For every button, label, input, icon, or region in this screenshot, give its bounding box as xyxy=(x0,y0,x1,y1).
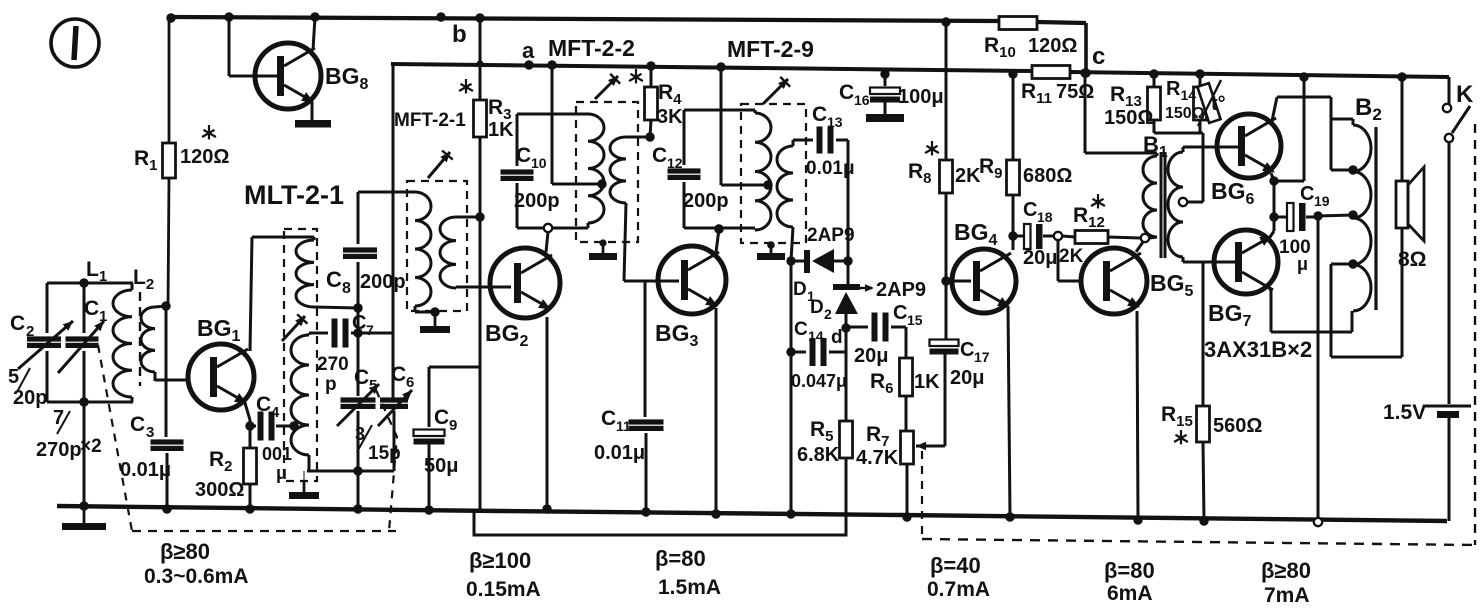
svg-text:120Ω: 120Ω xyxy=(180,146,229,168)
wire BG8 emitter and ground xyxy=(311,102,314,120)
svg-text:C: C xyxy=(352,312,366,334)
wire secondary bottom to BG3 base xyxy=(624,203,626,281)
diode D2 2AP9 xyxy=(833,284,860,290)
potentiometer R7 4.7K volume xyxy=(901,431,914,464)
B2 winding xyxy=(1353,125,1371,311)
svg-text:4.7K: 4.7K xyxy=(856,447,899,469)
svg-text:200p: 200p xyxy=(514,190,560,212)
wire secondary bottom to BG2 base xyxy=(456,286,511,289)
wire R6 to R7 xyxy=(905,396,908,431)
MFT-2-9 primary coil xyxy=(755,113,771,230)
svg-text:C: C xyxy=(812,103,827,126)
svg-text:17: 17 xyxy=(974,349,990,365)
svg-text:C: C xyxy=(84,297,99,320)
wire rail corner down to node c xyxy=(1084,23,1088,73)
capacitor C19 100u xyxy=(1274,216,1287,219)
svg-text:C: C xyxy=(354,366,369,389)
select mark R3 xyxy=(465,79,467,87)
wire emitters join xyxy=(1273,181,1276,231)
transistor BG1 xyxy=(188,344,254,410)
wire BG1 collector up xyxy=(250,237,252,351)
MFT-2-1 shield dashed box xyxy=(407,181,467,311)
B2 core xyxy=(1374,127,1377,310)
svg-text:200p: 200p xyxy=(683,190,729,212)
node a xyxy=(524,60,533,69)
variable capacitor C6 xyxy=(380,397,408,402)
svg-text:20μ: 20μ xyxy=(1023,247,1057,269)
svg-text:16: 16 xyxy=(854,92,870,108)
svg-text:β=40: β=40 xyxy=(930,553,981,578)
wire C10 bottom to BG2 collector node xyxy=(517,227,588,230)
svg-text:150Ω: 150Ω xyxy=(1104,107,1153,129)
capacitor C12 200p xyxy=(683,110,686,165)
svg-text:200p: 200p xyxy=(360,271,406,293)
svg-text:8Ω: 8Ω xyxy=(1398,248,1427,271)
svg-text:0.047μ: 0.047μ xyxy=(791,371,847,391)
ground main xyxy=(83,506,86,523)
B1 center tap xyxy=(1179,198,1187,206)
svg-text:150Ω: 150Ω xyxy=(1165,105,1205,122)
resistor R15 560ohm xyxy=(1202,262,1205,406)
svg-text:0.7mA: 0.7mA xyxy=(927,578,990,601)
oscillator tank coil xyxy=(291,335,309,455)
svg-text:0.15mA: 0.15mA xyxy=(466,578,541,601)
svg-text:C: C xyxy=(434,406,449,429)
B1 secondary coil xyxy=(1168,152,1183,257)
svg-text:MFT-2-2: MFT-2-2 xyxy=(548,35,635,61)
capacitor C11 0.01u xyxy=(644,281,647,417)
svg-text:2: 2 xyxy=(824,306,832,322)
svg-text:β=80: β=80 xyxy=(1104,558,1155,583)
wire C19 to B2 tap2 xyxy=(1318,215,1353,216)
svg-text:1K: 1K xyxy=(914,371,940,393)
svg-text:20μ: 20μ xyxy=(854,345,888,367)
MFT-2-2 secondary coil xyxy=(610,137,626,203)
wire node d down through R5 xyxy=(845,328,848,421)
capacitor C3 0.01u xyxy=(151,439,184,444)
ground MFT-2-2 xyxy=(602,242,604,243)
svg-text:680Ω: 680Ω xyxy=(1023,165,1072,187)
wire BG6 emitter to rail xyxy=(1271,173,1274,181)
battery 1.5V xyxy=(1425,405,1471,408)
select mark for R1 xyxy=(208,125,210,133)
arrow to 2AP9 label xyxy=(856,287,872,289)
capacitor C8 200p xyxy=(357,192,360,244)
svg-text:11: 11 xyxy=(616,418,631,434)
svg-text:9: 9 xyxy=(449,417,457,434)
wire primary bottom to ground xyxy=(414,306,417,312)
svg-text:0.3~0.6mA: 0.3~0.6mA xyxy=(144,565,249,588)
wire detector left leg xyxy=(790,261,793,514)
wire node c to B1 primary xyxy=(1080,68,1089,77)
svg-text:20p: 20p xyxy=(13,387,47,409)
svg-text:μ: μ xyxy=(276,463,287,483)
svg-text:560Ω: 560Ω xyxy=(1213,415,1262,437)
select mark R15 xyxy=(1180,430,1182,438)
resistor R10 xyxy=(999,17,1037,30)
speaker line from rail xyxy=(1397,72,1406,81)
node c xyxy=(1081,68,1090,77)
svg-text:C: C xyxy=(960,339,974,361)
svg-text:MFT-2-1: MFT-2-1 xyxy=(394,110,466,131)
wire secondary top to C13 xyxy=(792,140,795,146)
wire osc coil bottom to C8 node xyxy=(314,307,358,308)
MFT-2-1 secondary coil xyxy=(440,217,456,288)
wire BG1 base xyxy=(155,379,189,382)
svg-text:7: 7 xyxy=(366,322,374,338)
svg-text:C: C xyxy=(130,413,145,436)
svg-text:2K: 2K xyxy=(1059,246,1084,267)
oscillator feedback coil xyxy=(296,240,314,307)
capacitor C14 0.047u xyxy=(791,351,806,354)
svg-text:×2: ×2 xyxy=(80,436,102,457)
select mark R8 xyxy=(931,141,933,149)
tuning arrow MFT-2-2 xyxy=(595,76,618,99)
wire rail c to switch K xyxy=(1070,72,1449,77)
BG2 collector junction xyxy=(544,224,552,232)
select mark R12 xyxy=(1097,194,1099,202)
MFT-2-1 primary coil xyxy=(415,192,431,306)
MFT-2-2 primary coil xyxy=(588,114,604,223)
svg-text:2: 2 xyxy=(26,323,34,340)
wire BG4 base xyxy=(946,280,971,283)
wire b rail drop xyxy=(392,64,395,398)
svg-text:p: p xyxy=(325,374,337,395)
wire collector to osc coil top xyxy=(252,236,314,239)
wire tank bottom xyxy=(47,401,133,404)
transistor BG7 xyxy=(1214,230,1278,294)
svg-text:50μ: 50μ xyxy=(424,455,458,477)
svg-text:C: C xyxy=(326,267,342,292)
svg-text:75Ω: 75Ω xyxy=(1056,81,1094,103)
svg-text:300Ω: 300Ω xyxy=(195,479,244,501)
svg-text:1.5mA: 1.5mA xyxy=(658,576,721,599)
wire switch to battery xyxy=(1448,142,1451,404)
core L1 L2 xyxy=(139,292,141,386)
tuning arrow MLT-2-1 xyxy=(282,316,305,341)
capacitor C15 20u xyxy=(846,326,868,329)
wire BG5 emitter down xyxy=(1137,311,1138,520)
svg-text:D: D xyxy=(810,297,824,318)
svg-text:8: 8 xyxy=(342,280,351,297)
svg-text:d: d xyxy=(831,327,843,348)
svg-text:3AX31B×2: 3AX31B×2 xyxy=(1204,337,1312,362)
wire b rail to MFT-2-9 primary tap xyxy=(716,62,725,71)
svg-text:270: 270 xyxy=(317,354,349,375)
svg-text:1.5V: 1.5V xyxy=(1383,401,1426,424)
figure number circle 1 xyxy=(51,19,99,67)
transistor BG6 xyxy=(1217,114,1281,178)
wire B1 secondary bottom to BG7 base xyxy=(1182,257,1185,262)
switch K xyxy=(1448,77,1451,104)
svg-text:3: 3 xyxy=(146,424,154,441)
select mark R4 xyxy=(635,69,637,77)
resistors R13 R14 thermistor bias xyxy=(1202,133,1205,202)
transistor BG4 xyxy=(952,249,1016,313)
svg-text:c: c xyxy=(1092,43,1105,70)
wire C12 top to primary xyxy=(684,109,755,112)
resistor R5 6.8K xyxy=(840,421,853,458)
ground MFT-2-9 xyxy=(770,244,773,253)
wire BG7 emitter xyxy=(1268,231,1274,240)
wire BG3 emitter down xyxy=(715,308,718,514)
svg-text:C: C xyxy=(391,363,406,386)
capacitor C4 .001u xyxy=(250,425,256,428)
svg-text:β=80: β=80 xyxy=(655,546,706,571)
svg-text:β≥80: β≥80 xyxy=(1261,558,1311,583)
terminal circle R12 B1 xyxy=(1141,234,1149,242)
speaker 8ohm xyxy=(1396,181,1408,228)
svg-text:MLT-2-1: MLT-2-1 xyxy=(244,180,344,210)
terminal circle C18 R12 xyxy=(1054,232,1062,240)
svg-text:001: 001 xyxy=(262,444,292,464)
svg-text:12: 12 xyxy=(667,155,683,171)
resistor R6 1K xyxy=(905,327,908,358)
resistor R11 xyxy=(1032,66,1070,79)
resistor R13 150ohm xyxy=(1148,87,1161,120)
svg-text:20μ: 20μ xyxy=(950,367,984,389)
transistor BG3 xyxy=(658,246,726,314)
svg-text:C: C xyxy=(839,81,854,104)
capacitor C16 100u xyxy=(880,69,889,78)
svg-text:120Ω: 120Ω xyxy=(1028,35,1077,57)
svg-text:0.01μ: 0.01μ xyxy=(120,459,171,481)
svg-text:6: 6 xyxy=(406,374,414,391)
wire B2 tap3 to speaker return xyxy=(1331,263,1353,266)
wire top supply rail xyxy=(171,17,999,21)
B1 core xyxy=(1160,152,1163,258)
svg-text:C: C xyxy=(893,302,907,324)
wire secondary top to R3 xyxy=(456,216,480,219)
wire to BG5 base xyxy=(1057,240,1060,281)
capacitor C13 0.01u xyxy=(817,127,823,154)
MFT-2-2 shield dashed box xyxy=(576,102,638,242)
ground MLT box xyxy=(303,481,306,492)
antenna coil L1 xyxy=(113,290,132,397)
resistor R9 680ohm xyxy=(1008,69,1017,78)
svg-text:7mA: 7mA xyxy=(1264,584,1310,607)
wire C13 down to D1 xyxy=(847,140,850,287)
tuning arrow MFT-2-1 xyxy=(428,152,450,178)
wire BG1 emitter node xyxy=(245,403,250,420)
capacitor C9 50u electrolytic xyxy=(429,366,480,369)
svg-text:100μ: 100μ xyxy=(898,86,944,108)
wire B2 tap1 xyxy=(1331,169,1353,172)
svg-text:β≥100: β≥100 xyxy=(469,548,531,573)
capacitor C17 20u xyxy=(930,340,959,347)
trimmer capacitor C2 xyxy=(27,336,61,341)
svg-text:C: C xyxy=(794,319,808,340)
beta box IF solid xyxy=(474,511,846,535)
transistor BG8 xyxy=(255,43,321,109)
svg-text:3K: 3K xyxy=(657,106,683,128)
wire BG3 collector up xyxy=(716,229,719,252)
svg-text:C: C xyxy=(1023,199,1037,221)
svg-text:C: C xyxy=(652,144,667,167)
svg-text:2AP9: 2AP9 xyxy=(876,279,926,301)
diode D1 2AP9 xyxy=(791,260,806,263)
oscillator shield dashed box xyxy=(284,229,317,481)
wire B1 secondary top to BG6 base xyxy=(1182,147,1185,152)
node b xyxy=(436,12,445,21)
wire C10 top to primary xyxy=(517,113,588,116)
svg-text:270p: 270p xyxy=(36,439,82,461)
svg-text:15: 15 xyxy=(907,312,923,328)
resistor R3 1K xyxy=(475,13,484,22)
MFT-2-9 secondary coil xyxy=(777,146,793,227)
wire secondary bottom to detector xyxy=(791,227,793,261)
resistor R14 150ohm xyxy=(1195,69,1204,78)
wire second rail b xyxy=(391,64,1032,71)
svg-text:C: C xyxy=(10,312,25,335)
resistor R1 xyxy=(168,17,171,143)
wire bottom ground rail xyxy=(57,506,1447,521)
antenna coupling coil L2 xyxy=(141,307,155,372)
svg-text:2K: 2K xyxy=(955,165,981,187)
thermistor t xyxy=(1197,83,1220,123)
capacitor C10 200p xyxy=(516,114,519,166)
resistor R4 3K xyxy=(646,61,655,70)
svg-text:C: C xyxy=(256,393,271,416)
wire BG4 emitter down xyxy=(1008,306,1010,517)
wire b rail to primary tap xyxy=(547,60,556,69)
svg-text:19: 19 xyxy=(1314,193,1330,209)
wire BG5 collector to B1 xyxy=(1136,242,1143,252)
transistor BG2 xyxy=(490,248,560,318)
svg-text:1K: 1K xyxy=(488,119,514,141)
wire C5 C6 top xyxy=(358,332,393,335)
svg-text:10: 10 xyxy=(531,155,547,171)
wire C12 bottom to BG3 collector node xyxy=(684,227,755,230)
wire BG6 collector to B2 top xyxy=(1272,97,1277,121)
B1 primary coil xyxy=(1143,156,1157,237)
svg-text:C: C xyxy=(601,407,616,430)
svg-text:5: 5 xyxy=(8,366,19,388)
svg-text:t°: t° xyxy=(1211,93,1226,115)
resistor R12 2K xyxy=(1062,236,1075,237)
wire down to ground xyxy=(83,402,86,506)
svg-text:0.01μ: 0.01μ xyxy=(594,442,645,464)
svg-text:b: b xyxy=(452,21,467,48)
svg-text:18: 18 xyxy=(1037,209,1053,225)
beta box converter dashed xyxy=(98,345,132,531)
beta box audio dashed xyxy=(921,451,923,539)
capacitor C7 270p xyxy=(309,332,328,335)
wire BG2 emitter down xyxy=(546,317,549,509)
svg-text:C: C xyxy=(1300,183,1314,205)
wire BG8 collector xyxy=(313,17,315,50)
svg-text:C: C xyxy=(516,144,531,167)
wire BG8 base xyxy=(229,75,284,78)
svg-text:6.8K: 6.8K xyxy=(797,444,840,466)
svg-text:13: 13 xyxy=(827,114,843,130)
svg-text:MFT-2-9: MFT-2-9 xyxy=(727,36,814,62)
wire C19 node down to rail xyxy=(1317,216,1320,522)
MFT-2-9 shield dashed box xyxy=(741,104,806,243)
svg-text:1: 1 xyxy=(99,308,107,325)
capacitor C18 20u xyxy=(1013,235,1024,238)
svg-text:β≥80: β≥80 xyxy=(160,539,210,564)
terminal circle on rail xyxy=(1314,518,1322,526)
ground MFT-2-1 xyxy=(434,312,437,326)
wire BG7 collector to B2 bottom xyxy=(1268,285,1271,291)
variable capacitor C5 padder xyxy=(357,333,360,396)
wire tank coil top xyxy=(308,333,311,335)
variable capacitor C1 270p xyxy=(83,283,86,333)
tuning arrow MFT-2-9 xyxy=(763,79,788,104)
svg-text:D: D xyxy=(793,279,807,300)
svg-text:a: a xyxy=(522,38,535,63)
svg-text:6mA: 6mA xyxy=(1107,582,1153,605)
wire tank bottom xyxy=(307,470,394,473)
resistor R2 300ohm xyxy=(244,448,257,484)
wire C8 top to MFT-2-1 xyxy=(358,191,415,194)
transistor BG5 xyxy=(1081,248,1147,314)
svg-text:4: 4 xyxy=(271,404,280,421)
wire tank top xyxy=(47,282,133,285)
wire secondary top to R4 xyxy=(626,136,650,139)
wire tank left xyxy=(46,283,49,333)
resistor R8 2K xyxy=(941,17,950,26)
svg-text:μ: μ xyxy=(1297,254,1308,274)
svg-text:K: K xyxy=(1456,81,1474,108)
svg-text:14: 14 xyxy=(808,328,824,344)
